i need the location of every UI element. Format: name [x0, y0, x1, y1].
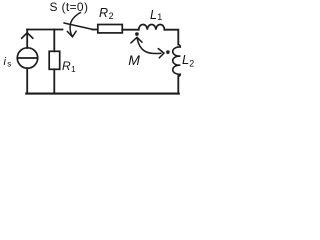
- resistor R2: [98, 25, 123, 33]
- svg-text:2: 2: [189, 58, 194, 68]
- svg-text:1: 1: [71, 64, 76, 74]
- current source is arrowhead: [22, 33, 33, 38]
- svg-text:S (t=0): S (t=0): [50, 0, 89, 14]
- switch S blade: [64, 23, 93, 29]
- svg-text:L: L: [150, 8, 157, 22]
- svg-text:s: s: [7, 60, 11, 69]
- wire blade to R2: [93, 29, 98, 31]
- mutual arrow up head: [131, 37, 142, 43]
- dot asterisk at L1 left end: [135, 32, 138, 36]
- svg-text:2: 2: [109, 11, 114, 21]
- svg-text:1: 1: [157, 12, 162, 22]
- mutual coupling arrow M: [137, 39, 161, 54]
- wire top-left horizontal: [27, 29, 63, 31]
- wire R1 branch upper: [53, 30, 55, 52]
- wire bottom horizontal: [26, 93, 179, 95]
- mutual arrow right head: [158, 49, 164, 58]
- inductor L1: [139, 24, 165, 29]
- svg-text:R: R: [62, 59, 71, 73]
- wire R2 to L1: [122, 29, 138, 31]
- dot asterisk at L2 top: [166, 50, 169, 54]
- wire left vertical lower: [26, 68, 28, 93]
- wire left vertical upper (with source arrow shaft): [26, 30, 28, 48]
- current source is circle: [17, 48, 37, 68]
- wire L2 bottom to corner: [177, 76, 179, 94]
- svg-text:M: M: [128, 52, 140, 68]
- switch arrowhead: [67, 31, 76, 37]
- svg-text:R: R: [99, 6, 108, 20]
- wire L1 to top-right corner and down: [165, 30, 179, 45]
- svg-text:i: i: [4, 56, 7, 68]
- inductor L2: [173, 45, 181, 77]
- current source is bar: [17, 57, 37, 59]
- switch closing arrow arc: [70, 13, 80, 37]
- wire R1 branch lower: [53, 69, 55, 93]
- svg-text:L: L: [182, 52, 189, 67]
- resistor R1: [49, 51, 60, 69]
